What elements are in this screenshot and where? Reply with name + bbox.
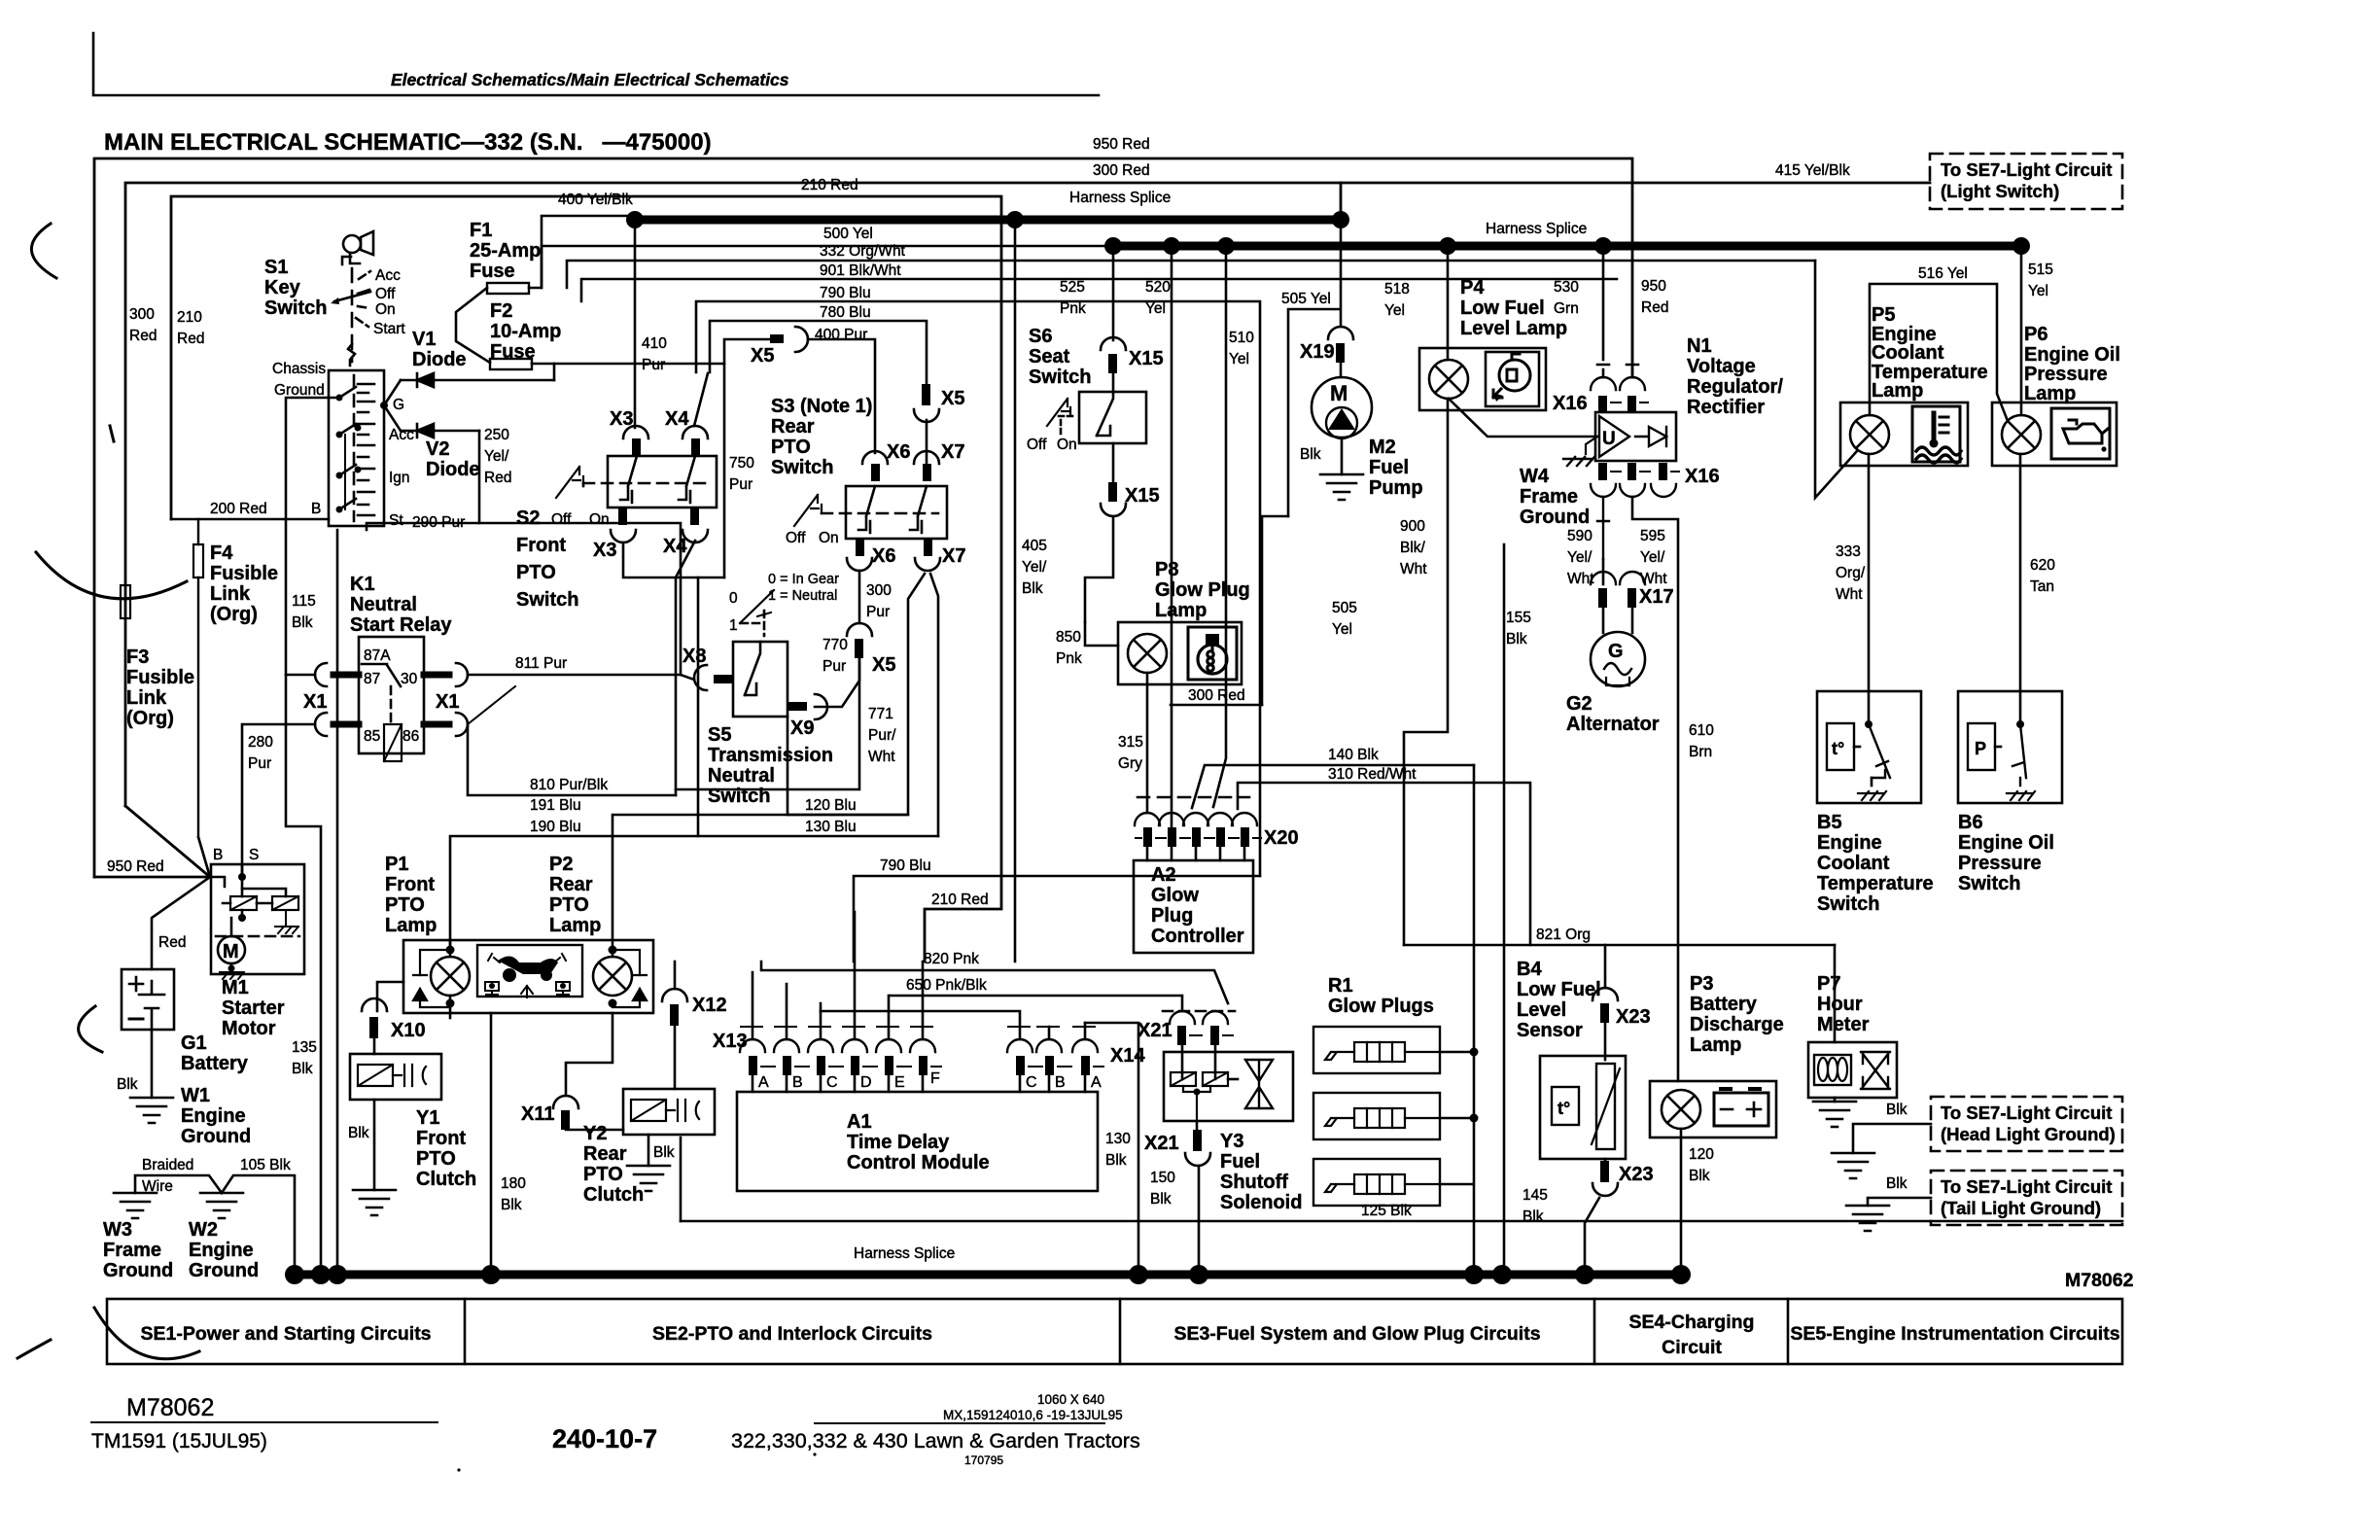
solenoid Y1 box (350, 1054, 441, 1100)
svg-text:K1: K1 (350, 574, 375, 595)
actuator S6 (1047, 399, 1070, 426)
battery plus (129, 977, 143, 991)
svg-text:Engine: Engine (181, 1105, 246, 1127)
svg-text:Neutral: Neutral (350, 594, 417, 615)
svg-text:900: 900 (1400, 518, 1425, 535)
svg-text:Yel/: Yel/ (1640, 549, 1665, 566)
P7 coil icon (1814, 1055, 1851, 1085)
alternator G2 (1591, 632, 1645, 686)
svg-text:(Head Light Ground): (Head Light Ground) (1941, 1124, 2116, 1144)
lamp P4 (1429, 360, 1468, 399)
svg-text:Pressure: Pressure (1958, 853, 2042, 874)
pto symbol right (556, 982, 570, 995)
wire squiggle to switch (348, 344, 355, 366)
svg-text:Blk: Blk (292, 1061, 313, 1077)
wire 400 Yel/Blk feed (529, 216, 635, 288)
svg-text:P6: P6 (2024, 324, 2047, 345)
X20 pin drops (1147, 847, 1244, 860)
svg-text:X5: X5 (872, 654, 895, 676)
wire lower rail (681, 1220, 2122, 1223)
svg-text:821 Org: 821 Org (1536, 927, 1591, 943)
svg-text:X6: X6 (872, 545, 895, 567)
svg-text:M78062: M78062 (2065, 1270, 2134, 1291)
scan mark arc mid-left (36, 552, 187, 599)
svg-text:300: 300 (866, 582, 892, 599)
svg-text:Link: Link (210, 583, 251, 605)
wire 300 Red / 415 Yel-Blk frame (125, 183, 1930, 806)
svg-text:G1: G1 (181, 1032, 207, 1054)
svg-text:170795: 170795 (964, 1453, 1003, 1467)
ground Y1 (353, 1190, 396, 1215)
ground bus bottom (295, 1271, 1681, 1279)
svg-text:87A: 87A (364, 647, 391, 664)
splice dot (1439, 237, 1456, 255)
svg-text:Blk: Blk (1689, 1168, 1710, 1184)
X13 pin drops into A1 (752, 1075, 923, 1092)
svg-text:Glow Plugs: Glow Plugs (1328, 996, 1434, 1017)
diode P1 (420, 950, 450, 1007)
svg-text:Tan: Tan (2030, 578, 2054, 595)
svg-text:P2: P2 (549, 854, 573, 875)
wire glow bank collector (1440, 765, 1474, 1275)
svg-text:Rear: Rear (549, 874, 593, 895)
hour meter P7 box (1808, 1042, 1897, 1098)
footer rule left (91, 1421, 437, 1423)
connector X5 top-left (770, 334, 784, 343)
table divider (1787, 1299, 1790, 1364)
wire B4 to X23 lower (1604, 1159, 1607, 1161)
wire 515 Yel (2020, 246, 2023, 415)
svg-text:S: S (249, 847, 259, 863)
lamp P3 box (1650, 1081, 1776, 1137)
connector row X14 (1007, 1027, 1103, 1075)
switch S2 blade 1 (620, 456, 637, 503)
svg-text:Clutch: Clutch (416, 1169, 476, 1190)
svg-text:Wht: Wht (1400, 561, 1427, 577)
wire P1 to X10 (449, 996, 452, 1018)
wire 821 Org (1404, 944, 1835, 947)
svg-text:M1: M1 (222, 977, 249, 998)
svg-text:Start Relay: Start Relay (350, 614, 452, 636)
wire 400 Pur (724, 339, 875, 453)
svg-text:P5: P5 (1872, 304, 1895, 326)
wire 500 Yel thin (542, 246, 1113, 288)
svg-text:M: M (223, 941, 239, 962)
splice dot (285, 1265, 304, 1284)
svg-text:B: B (792, 1074, 803, 1091)
switch S3 blade 2 (910, 486, 927, 533)
wire tail light ground (1868, 1198, 1931, 1206)
switch S2 blade 2 (679, 456, 695, 503)
splice dot (1575, 1265, 1594, 1284)
svg-text:Yel: Yel (1229, 351, 1249, 367)
svg-text:Blk: Blk (1150, 1191, 1172, 1207)
svg-text:Y1: Y1 (416, 1107, 439, 1129)
svg-text:Fusible: Fusible (210, 563, 278, 584)
svg-text:333: 333 (1836, 543, 1861, 560)
svg-text:X23: X23 (1619, 1164, 1654, 1185)
svg-text:Seat: Seat (1029, 346, 1070, 367)
svg-text:Yel: Yel (2028, 283, 2048, 299)
fuel icon box (1486, 352, 1539, 406)
svg-text:Blk/: Blk/ (1400, 540, 1426, 556)
svg-text:Regulator/: Regulator/ (1687, 376, 1783, 398)
label X12 riser wire (674, 962, 677, 989)
starter B stub (211, 877, 225, 887)
svg-text:180: 180 (501, 1175, 526, 1192)
wire P4 lamp to N1 (1449, 399, 1597, 437)
svg-text:Rear: Rear (771, 416, 815, 437)
wire 505 Yel from bus (1288, 220, 1341, 516)
relay K1 pin 85 (333, 721, 359, 728)
svg-text:Red: Red (129, 328, 157, 344)
svg-text:A: A (758, 1074, 769, 1091)
starter solenoid coil 2 (272, 896, 298, 910)
svg-text:B: B (311, 501, 321, 517)
svg-text:300 Red: 300 Red (1093, 162, 1150, 179)
ground W3 (114, 1193, 157, 1218)
svg-text:530: 530 (1554, 279, 1579, 296)
connector X6 bottom (856, 539, 864, 556)
wire X4b second leg (787, 717, 789, 815)
svg-text:Low Fuel: Low Fuel (1517, 979, 1601, 1000)
wire 505 Yel to P8 (1262, 516, 1288, 705)
wire 150 Blk (1198, 1166, 1201, 1265)
starter solenoid coil 1 (230, 896, 257, 910)
svg-text:510: 510 (1229, 330, 1254, 346)
lamp P8 box (1118, 622, 1242, 684)
ground P7 (1813, 1102, 1856, 1127)
svg-text:Off: Off (786, 530, 806, 546)
connector X19 (1328, 327, 1353, 339)
svg-text:PTO: PTO (771, 437, 811, 458)
svg-text:W4: W4 (1520, 466, 1550, 487)
svg-text:Blk: Blk (1886, 1102, 1907, 1118)
svg-text:Coolant: Coolant (1872, 342, 1944, 364)
svg-text:Pur: Pur (642, 357, 665, 373)
svg-text:P4: P4 (1460, 277, 1485, 298)
wire 155 Blk (1503, 544, 1506, 1265)
svg-text:On: On (1057, 437, 1077, 453)
diode V2 (401, 424, 479, 437)
S5 actuator 0/1 (740, 590, 774, 623)
arrow center (521, 986, 533, 997)
page corner rule (93, 33, 1099, 95)
svg-text:D: D (860, 1074, 872, 1091)
svg-text:Wht: Wht (1836, 586, 1863, 603)
ground W4 chassis (1563, 457, 1594, 466)
stray dot 2 (813, 1452, 816, 1455)
lamp assembly P1/P2 box (403, 940, 653, 1013)
wire F1 left lead (456, 288, 490, 363)
svg-text:25-Amp: 25-Amp (470, 240, 541, 262)
connector X5 mid (922, 384, 930, 405)
wire Y2 to ground (647, 1135, 650, 1166)
svg-text:Y2: Y2 (583, 1123, 607, 1144)
wire 820 Pnk (761, 962, 1228, 1003)
connector X3 bottom (618, 507, 627, 525)
wire X15 to S6 (1112, 373, 1115, 392)
svg-text:Frame: Frame (1520, 486, 1578, 507)
svg-text:X15: X15 (1125, 485, 1160, 507)
wire X12 stub (674, 1026, 677, 1089)
svg-text:SE5-Engine Instrumentation Cir: SE5-Engine Instrumentation Circuits (1790, 1323, 2119, 1345)
wire 86 to 810 (468, 724, 676, 795)
svg-text:C: C (826, 1074, 838, 1091)
glow plug bank 3 box (1313, 1159, 1440, 1206)
terminal chassis ground (336, 395, 343, 402)
svg-text:TM1591 (15JUL95): TM1591 (15JUL95) (91, 1430, 267, 1452)
svg-text:Lamp: Lamp (1155, 600, 1207, 621)
splice dot (311, 1265, 331, 1284)
svg-text:Discharge: Discharge (1690, 1014, 1784, 1035)
svg-text:Engine Oil: Engine Oil (1958, 832, 2054, 854)
svg-text:Ground: Ground (1520, 507, 1590, 528)
svg-text:On: On (589, 511, 610, 528)
svg-text:Engine: Engine (1817, 832, 1882, 854)
footer rule right (815, 1422, 1104, 1424)
svg-text:Ground: Ground (181, 1126, 251, 1147)
oil icon box (2051, 408, 2110, 459)
P7 hourglass icon (1861, 1052, 1890, 1089)
svg-text:PTO: PTO (516, 562, 556, 583)
svg-text:N1: N1 (1687, 335, 1712, 357)
ground tail light (1846, 1206, 1889, 1231)
X13 pin risers (752, 912, 923, 1039)
stray dot 1 (457, 1468, 460, 1471)
svg-text:Pur: Pur (729, 476, 752, 493)
wire 332 Org/Wht (567, 261, 1815, 288)
svg-text:85: 85 (364, 728, 380, 745)
diode V1 (401, 373, 554, 387)
svg-text:790 Blu: 790 Blu (820, 285, 871, 301)
svg-text:Controller: Controller (1151, 926, 1244, 947)
Y2 coil (631, 1100, 666, 1121)
connector X7 bottom (924, 539, 932, 556)
starter dashed divider (216, 935, 299, 938)
glow plug bank 2 box (1313, 1093, 1440, 1139)
svg-text:10-Amp: 10-Amp (490, 321, 561, 342)
wire 530 Grn (1597, 246, 1638, 377)
svg-text:518: 518 (1384, 281, 1410, 297)
splice dot (1332, 211, 1349, 228)
relay K1 pin 30 (424, 672, 449, 679)
switch S1 contact ladder (358, 384, 374, 515)
connector row X20 (1135, 813, 1261, 847)
starter motor M1 box (211, 864, 304, 974)
svg-text:X12: X12 (692, 995, 727, 1016)
wire 310 Red/Wht (1238, 783, 1530, 945)
connector X4 bottom (690, 507, 699, 525)
svg-text:Meter: Meter (1817, 1014, 1870, 1035)
svg-text:Blk: Blk (1105, 1152, 1127, 1169)
svg-text:810 Pur/Blk: 810 Pur/Blk (530, 777, 608, 793)
ground M2 (1320, 474, 1363, 500)
svg-text:Battery: Battery (181, 1053, 249, 1074)
svg-text:145: 145 (1522, 1187, 1548, 1204)
connector X21 lower (1193, 1130, 1202, 1151)
connector X1 left arcs (315, 663, 327, 736)
splice dot (1104, 237, 1122, 255)
fusible link F3 symbol (121, 585, 130, 618)
svg-text:B: B (213, 847, 223, 863)
table divider (1593, 1299, 1596, 1364)
svg-text:X5: X5 (941, 388, 964, 409)
svg-text:SE1-Power and Starting Circuit: SE1-Power and Starting Circuits (140, 1323, 431, 1345)
B6 blade (2012, 724, 2026, 778)
connector X5 lower (847, 623, 872, 636)
svg-text:Rectifier: Rectifier (1687, 397, 1765, 418)
wire lower rail left drop (680, 1137, 682, 1221)
connector X1 right arcs (456, 663, 468, 736)
wire 900 drop (1404, 399, 1448, 945)
svg-text:Blk: Blk (348, 1125, 369, 1141)
wire G node to diodes (384, 380, 401, 431)
svg-text:Engine: Engine (189, 1240, 254, 1261)
svg-text:Electrical Schematics/Main Ele: Electrical Schematics/Main Electrical Sc… (391, 70, 789, 89)
svg-text:Control Module: Control Module (847, 1152, 990, 1173)
svg-text:Engine Oil: Engine Oil (2024, 344, 2120, 366)
svg-text:Grn: Grn (1554, 300, 1579, 317)
svg-text:400 Yel/Blk: 400 Yel/Blk (558, 192, 633, 208)
Y3 coil 2 (1203, 1072, 1228, 1086)
svg-text:Pnk: Pnk (1060, 300, 1086, 317)
wire St 290 Pur (367, 523, 681, 675)
wire head light ground (1853, 1124, 1931, 1153)
svg-text:MX,159124010,6 -19-13JUL95: MX,159124010,6 -19-13JUL95 (943, 1408, 1123, 1422)
wire F4 (198, 519, 210, 877)
svg-text:G: G (393, 397, 404, 413)
svg-text:0 = In Gear: 0 = In Gear (768, 572, 839, 587)
connector row X13 (740, 1027, 941, 1075)
svg-text:F2: F2 (490, 300, 512, 322)
wire X1-86 diagonal (468, 686, 515, 724)
scan mark arc top-left (31, 224, 56, 278)
svg-text:610: 610 (1689, 722, 1714, 739)
svg-text:Ground: Ground (189, 1260, 259, 1281)
switch S6 blade (1097, 392, 1113, 436)
splice dot (2012, 237, 2030, 255)
svg-text:Yel: Yel (1332, 621, 1352, 638)
svg-text:Level: Level (1517, 999, 1566, 1021)
actuator S2 (556, 467, 583, 498)
svg-text:Fusible: Fusible (126, 667, 194, 688)
svg-text:Yel: Yel (1145, 300, 1166, 317)
svg-text:(Light Switch): (Light Switch) (1941, 181, 2059, 201)
braided wire run (135, 1175, 295, 1265)
wire X19 to pump (1340, 363, 1343, 377)
svg-text:G2: G2 (1566, 693, 1592, 715)
B5 contact hook (1872, 770, 1885, 778)
svg-text:Fuel: Fuel (1220, 1151, 1260, 1172)
terminal St (336, 507, 343, 513)
svg-text:210: 210 (177, 309, 202, 326)
glow plug bank 1 box (1313, 1027, 1440, 1073)
svg-text:Red: Red (177, 331, 204, 347)
wire 300 Red (1171, 704, 1262, 707)
svg-text:Pur: Pur (866, 604, 890, 620)
svg-text:To SE7-Light Circuit: To SE7-Light Circuit (1941, 159, 2112, 180)
glow plug icon (1198, 634, 1227, 674)
wire 525 Pnk drop (1112, 246, 1115, 340)
svg-text:525: 525 (1060, 279, 1085, 296)
svg-text:1 = Neutral: 1 = Neutral (768, 588, 837, 604)
B6 contact (2019, 778, 2021, 786)
wire 87 to 115Blk (286, 674, 315, 677)
X21 dashed tie (1163, 1010, 1235, 1013)
svg-text:S3 (Note 1): S3 (Note 1) (771, 396, 872, 417)
svg-text:290 Pur: 290 Pur (412, 514, 465, 531)
svg-text:X23: X23 (1616, 1006, 1651, 1028)
svg-text:Lamp: Lamp (1872, 380, 1923, 402)
svg-text:750: 750 (729, 455, 754, 472)
svg-text:X10: X10 (391, 1020, 426, 1041)
wire 180 Blk (490, 1013, 493, 1265)
connector X15 lower (1108, 482, 1117, 502)
svg-text:S1: S1 (264, 257, 288, 278)
svg-text:X16: X16 (1685, 466, 1720, 487)
wire X23 into B4 (1604, 1023, 1607, 1060)
ground B5 internal (1858, 791, 1886, 800)
wire 595 Yel/Wht (1632, 497, 1678, 1081)
ground W1 (130, 1098, 173, 1123)
wire 315 Gry (1146, 673, 1149, 813)
diode P2 (612, 950, 640, 1007)
svg-text:Lamp: Lamp (1690, 1034, 1741, 1056)
wire X10 into Y1 (373, 1038, 376, 1054)
svg-text:Pur/: Pur/ (868, 727, 896, 744)
svg-text:Acc: Acc (389, 427, 414, 443)
svg-text:Wht: Wht (868, 749, 895, 765)
wire 190 Blu (450, 836, 938, 950)
key switch position dashes (351, 268, 354, 362)
wire F2 right lead 750 Pur (532, 364, 724, 577)
wire 332 to P5 (1815, 261, 1857, 498)
svg-text:Rear: Rear (583, 1143, 627, 1165)
fuse F2 (490, 359, 532, 369)
svg-text:Blk: Blk (1300, 446, 1321, 463)
svg-text:Lamp: Lamp (549, 915, 601, 936)
wire 210 Red frame (171, 196, 1001, 962)
svg-text:Blk: Blk (1506, 631, 1527, 647)
relay K1 contact (387, 665, 401, 686)
svg-text:790 Blu: 790 Blu (880, 857, 931, 874)
svg-text:950 Red: 950 Red (107, 858, 164, 875)
svg-text:Red: Red (158, 934, 186, 951)
B6 wire into switch (2019, 691, 2022, 724)
wire 405 YelBlk drop (1014, 220, 1017, 962)
svg-text:X9: X9 (790, 717, 814, 739)
svg-text:B4: B4 (1517, 959, 1542, 980)
splice dot (1189, 1265, 1208, 1284)
glow plug element 3 (1325, 1174, 1440, 1194)
key icon S1 (342, 231, 373, 264)
svg-text:M: M (1330, 381, 1347, 405)
svg-text:Battery: Battery (1690, 994, 1758, 1015)
svg-text:X20: X20 (1264, 827, 1299, 849)
relay K1 pin 87 (333, 672, 359, 679)
svg-text:X17: X17 (1639, 586, 1674, 608)
svg-text:On: On (375, 301, 396, 318)
svg-text:200 Red: 200 Red (210, 501, 267, 517)
switch S6 body (1079, 392, 1146, 443)
lamp P6 box (1992, 402, 2117, 466)
svg-text:Front: Front (416, 1128, 466, 1149)
svg-text:300 Red: 300 Red (1188, 687, 1245, 704)
svg-text:Harness Splice: Harness Splice (854, 1245, 955, 1262)
svg-text:1060 X 640: 1060 X 640 (1037, 1392, 1104, 1407)
svg-text:210 Red: 210 Red (801, 177, 858, 193)
